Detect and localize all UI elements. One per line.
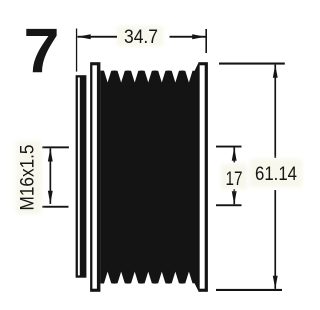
svg-text:M16x1.5: M16x1.5 [18, 145, 39, 211]
dimension 61.14 : vertical dimension line upper segment [274, 65, 276, 158]
dimension 61.14 : vertical dimension line lower segment [274, 190, 276, 289]
dimension 17 : top tick line [216, 146, 242, 148]
dimension 61.14 : top reference line [219, 63, 285, 65]
hub threaded sleeve (M16) outline [76, 75, 87, 278]
dimension 17 : label background [221, 164, 247, 189]
dimension 34.7 : dimension line right segment [170, 36, 206, 38]
dimension 61.14 : down arrowhead [273, 276, 278, 289]
dimension M16x1.5 : bottom tick line [42, 206, 68, 208]
dimension 34.7 : right arrowhead [192, 34, 205, 39]
svg-text:61.14: 61.14 [255, 164, 297, 185]
dimension M16x1.5 : down arrowhead [48, 191, 53, 204]
dimension 61.14 : label background [250, 159, 302, 187]
dimension 61.14 : bottom reference line [216, 289, 282, 291]
dimension 34.7 : left arrowhead [78, 34, 91, 39]
svg-text:34.7: 34.7 [124, 27, 158, 48]
dimension 34.7 : dimension line left segment [78, 36, 118, 38]
dimension 61.14 : up arrowhead [273, 65, 278, 78]
dimension 17 : up arrowhead [232, 148, 237, 161]
left flange [90, 62, 100, 292]
dimension M16x1.5 : up arrowhead [48, 148, 53, 161]
dimension 34.7 : right extension line [205, 29, 207, 53]
dimension 17 : lower arrow line [233, 189, 235, 204]
dimension 17 : bottom tick line [216, 204, 242, 206]
pulley body with poly-V grooves [100, 62, 199, 292]
dimension 34.7 : label background [117, 26, 163, 46]
dimension M16x1.5 : label background [16, 141, 41, 214]
dimension M16x1.5 : top tick line [42, 146, 69, 148]
svg-text:7: 7 [24, 17, 60, 87]
dimension 34.7 : left extension line [76, 29, 77, 72]
dimension 17 : upper arrow line [233, 148, 235, 163]
dimension 17 : down arrowhead [232, 191, 237, 204]
right flange [199, 62, 208, 292]
svg-text:17: 17 [226, 169, 243, 190]
dimension M16x1.5 : vertical dimension line [50, 148, 52, 204]
